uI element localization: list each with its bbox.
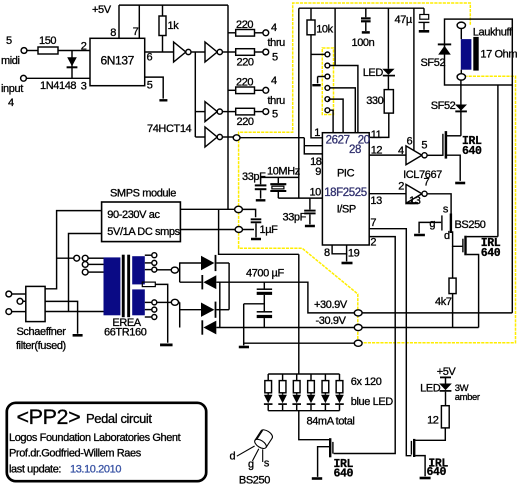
svg-text:Pedal circuit: Pedal circuit [86,411,152,426]
svg-text:g: g [248,459,254,471]
svg-text:blue LED: blue LED [351,396,394,408]
svg-text:10k: 10k [316,24,333,36]
svg-text:13.10.2010: 13.10.2010 [70,464,121,476]
svg-text:<PP2>: <PP2> [17,405,81,429]
svg-text:g: g [429,218,435,230]
svg-text:5: 5 [6,35,12,47]
svg-text:640: 640 [462,145,482,158]
svg-text:Schaeffner: Schaeffner [17,326,67,338]
svg-text:5: 5 [272,52,278,64]
svg-text:13: 13 [370,195,382,207]
svg-text:10MHz: 10MHz [267,166,300,178]
svg-text:LED: LED [420,383,441,395]
svg-text:last update:: last update: [9,464,61,476]
svg-text:amber: amber [455,392,480,403]
svg-text:4: 4 [271,75,277,87]
svg-text:12: 12 [427,415,439,427]
svg-text:input: input [1,83,23,95]
svg-text:19: 19 [348,247,360,259]
svg-text:90-230V ac: 90-230V ac [107,209,160,221]
svg-text:100n: 100n [352,37,375,49]
svg-text:PIC: PIC [337,167,355,179]
svg-text:13: 13 [409,195,421,207]
svg-text:640: 640 [334,467,354,480]
svg-text:I/SP: I/SP [337,203,356,215]
svg-text:5: 5 [147,80,153,92]
svg-text:6: 6 [407,136,413,148]
svg-text:17 Ohm: 17 Ohm [480,48,517,60]
svg-text:-30.9V: -30.9V [316,315,347,327]
svg-text:33pF: 33pF [242,171,266,183]
svg-text:640: 640 [481,247,501,260]
svg-text:74HCT14: 74HCT14 [147,123,192,135]
svg-text:4700 µF: 4700 µF [246,268,284,280]
svg-text:4: 4 [8,97,14,109]
svg-text:s: s [264,458,270,470]
svg-text:5: 5 [272,109,278,121]
svg-text:3: 3 [81,81,87,93]
svg-text:1N4148: 1N4148 [40,80,76,92]
svg-text:640: 640 [427,466,447,479]
svg-text:7: 7 [370,217,376,229]
svg-text:7: 7 [424,176,430,188]
svg-text:SF52: SF52 [431,100,456,112]
svg-text:84mA total: 84mA total [307,416,355,428]
svg-text:1µF: 1µF [260,224,279,236]
svg-text:filter(fused): filter(fused) [16,340,66,352]
svg-text:28: 28 [349,144,361,156]
svg-text:18F2525: 18F2525 [324,187,367,199]
svg-text:d: d [230,451,236,463]
svg-text:SF52: SF52 [421,57,446,69]
svg-text:8: 8 [324,247,330,259]
svg-text:4: 4 [398,145,404,157]
svg-text:2627: 2627 [326,135,350,147]
svg-text:4k7: 4k7 [435,296,452,308]
svg-text:5V/1A DC smps: 5V/1A DC smps [107,226,180,238]
svg-text:Logos Foundation Laboratories: Logos Foundation Laboratories Ghent [9,432,181,444]
svg-text:11: 11 [371,129,382,141]
svg-text:BS250: BS250 [455,219,486,231]
svg-text:6: 6 [147,52,153,64]
svg-text:thru: thru [268,37,286,49]
svg-text:10: 10 [309,187,321,199]
svg-text:2: 2 [81,41,87,53]
svg-text:9: 9 [315,166,321,178]
svg-text:6x 120: 6x 120 [351,376,382,388]
svg-text:thru: thru [268,95,286,107]
svg-text:6N137: 6N137 [101,54,135,68]
svg-text:12: 12 [371,144,383,156]
svg-text:7: 7 [133,26,139,38]
svg-text:33pF: 33pF [283,211,307,223]
svg-text:4: 4 [271,22,277,34]
svg-text:66TR160: 66TR160 [104,326,147,338]
svg-text:Prof.dr.Godfried-Willem Raes: Prof.dr.Godfried-Willem Raes [9,448,142,460]
svg-text:220: 220 [237,116,254,128]
svg-text:Laukhuff: Laukhuff [473,26,513,38]
svg-text:LED: LED [363,67,384,79]
svg-text:2: 2 [370,237,376,249]
svg-text:5: 5 [421,139,427,151]
svg-text:330: 330 [366,95,383,107]
svg-text:2: 2 [398,181,404,193]
svg-text:d: d [444,230,450,242]
svg-text:midi: midi [1,55,20,67]
svg-text:220: 220 [237,57,254,69]
svg-text:+5V: +5V [92,4,112,16]
svg-text:220: 220 [236,76,253,88]
svg-text:47µ: 47µ [395,14,413,26]
svg-text:220: 220 [236,19,253,31]
svg-text:BS250: BS250 [239,475,270,487]
svg-text:+5V: +5V [437,366,457,378]
svg-text:1: 1 [314,127,320,139]
svg-text:SMPS module: SMPS module [110,187,176,199]
svg-text:8: 8 [110,27,116,39]
svg-text:+30.9V: +30.9V [314,299,348,311]
svg-text:1k: 1k [168,20,180,32]
svg-text:s: s [443,203,449,215]
svg-text:150: 150 [39,35,56,47]
